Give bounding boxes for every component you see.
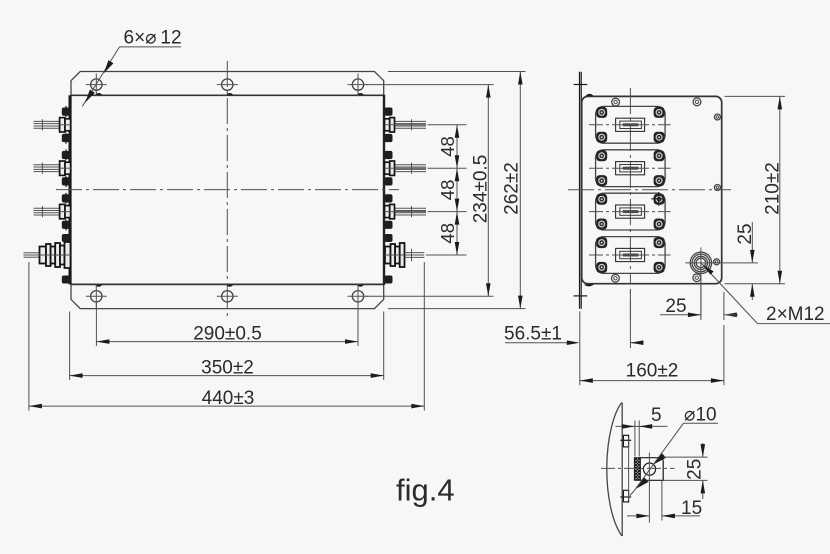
mounting hole bottom-left (6x dia12) [91,291,102,302]
extension lines for 350 [69,312,71,381]
dimension 56.5+-1 line [505,342,574,344]
dimension 48 (row 1 to 2) [456,125,458,168]
terminal cover 2: corner screws [596,150,607,161]
dimension 5: line and arrows [616,425,668,427]
detail view: stud block [640,458,663,481]
mounting hole bottom-middle (6x dia12) [222,291,233,302]
dimension 25 detail: line and arrows [702,443,704,457]
right terminal row 3: nut stack [385,206,390,218]
main view: body bottom edge [71,283,384,285]
terminal cover 2: outer plate [596,150,666,187]
main view: body top edge [71,94,384,96]
side view: mounting plate [579,72,581,309]
main view: vertical centerline [226,61,228,319]
dimension 210+-2 line [779,96,781,283]
svg-text:290±0.5: 290±0.5 [193,324,262,345]
right terminal row 3: stud [394,207,426,209]
left terminal row 2: screw below [62,177,70,185]
svg-text:56.5±1: 56.5±1 [504,324,562,345]
side view: box outline [582,96,722,283]
detail view: break line (wavy) [607,403,622,537]
detail view: stud hole circle dia10 [643,463,655,475]
svg-text:160±2: 160±2 [626,361,679,382]
extension line row 1 [428,124,467,126]
left terminal row 2: nut stack [60,161,65,175]
terminal cover 1: outer plate [596,106,666,143]
dimension 234+-0.5 line [487,85,489,297]
extension line plate bottom [579,311,581,385]
left terminal row 3: nut stack [60,204,65,218]
svg-text:48: 48 [437,180,458,201]
left terminal row 2: stud [34,164,60,166]
label 2xM12 leader [701,263,758,324]
right terminal row 3: screw below [384,221,392,229]
svg-text:440±3: 440±3 [202,388,255,409]
dimension 25 horizontal (centerline to gland) [629,290,631,320]
side view: plate hole tick bottom [574,295,588,297]
right terminal row 4: stud tip [405,252,425,254]
left terminal row 1: nut stack [60,118,65,132]
left terminal row 1: screw below [62,134,70,142]
dimension 48 (row 2 to 3) [456,168,458,211]
detail view: bottom tab [623,490,628,502]
dimension 15: line and arrows [627,515,649,517]
main view: horizontal centerline [56,189,399,191]
right terminal row 3: screw above [384,194,392,202]
left terminal row 2: screw above [62,151,70,159]
svg-text:⌀10: ⌀10 [684,405,717,426]
cable gland 2xM12 [690,252,711,273]
terminal cover 1: centerline [589,124,671,126]
left terminal row 3: stud [34,207,60,209]
mounting hole top-middle (6x dia12) [222,79,233,90]
main view: flange outline [71,72,384,309]
terminal cover 4: corner screws [596,237,607,248]
detail view: insulator line [628,437,630,501]
side view: edge mark top [586,94,594,96]
side view: edge mark bottom [584,285,594,287]
dimension 262+-2 line [519,72,521,309]
right terminal row 4 (line terminal): gland stack [385,247,391,264]
left terminal row 4: screw below [62,276,70,284]
left terminal row 4 (line terminal): stud tip [24,252,40,254]
extension line box top right [725,95,786,97]
mounting hole bottom-right (6x dia12) [352,291,363,302]
main view: body right edge (thick) [383,95,385,285]
label 6x dia12 leader line [82,47,119,107]
detail view: centerline [601,467,675,469]
svg-text:350±2: 350±2 [201,358,254,379]
right terminal row 1: stud [394,120,426,122]
svg-text:262±2: 262±2 [502,162,523,215]
left terminal row 4: gland stack [40,247,47,264]
right terminal row 4: screw above [384,234,392,242]
terminal cover 1: terminal block [616,118,645,131]
side view: vertical centerline [629,88,631,283]
extension line row 2 [428,167,467,169]
extension lines for 262 [388,71,526,73]
extension line row 3 [428,211,467,213]
svg-text:6×⌀ 12: 6×⌀ 12 [124,28,182,49]
dimension 290+-0.5 line [96,341,358,343]
left terminal row 3: screw below [62,221,70,229]
terminal cover 2: terminal block [616,162,645,175]
svg-text:25: 25 [665,296,686,317]
left terminal row 3: screw above [62,194,70,202]
dimension 440+-3 line [29,405,424,407]
svg-text:25: 25 [735,223,756,244]
extension line box bottom right [725,283,786,285]
svg-text:48: 48 [437,136,458,157]
dimension 5: extension lines [634,421,636,457]
terminal cover 2: centerline [589,167,671,169]
terminal cover 3: centerline [589,211,671,213]
terminal cover 4: terminal block [616,248,645,261]
svg-text:210±2: 210±2 [763,162,784,215]
side view: right edge circles [714,114,720,120]
svg-text:234±0.5: 234±0.5 [471,155,492,224]
svg-text:15: 15 [681,498,702,519]
dimension 48 (row 3 to 4) [456,212,458,255]
svg-text:25: 25 [685,459,706,480]
side view: horizontal centerline [568,189,731,191]
terminal cover 1: corner screws [596,107,607,118]
svg-text:2×M12: 2×M12 [766,304,825,325]
right terminal row 2: nut stack [385,162,390,174]
terminal cover 4: centerline [589,254,671,256]
dimension 350+-2 line [70,375,384,377]
side view: plate hole tick top [574,84,588,86]
terminal cover 3: terminal block [616,205,645,218]
svg-text:48: 48 [437,223,458,244]
extension line row 4 [428,254,467,256]
left terminal row 1: screw above [62,108,70,116]
detail view: plate edge line [621,403,623,537]
svg-text:fig.4: fig.4 [396,472,455,507]
mounting hole top-right (6x dia12) [352,79,363,90]
right terminal row 2: screw above [384,151,392,159]
extension lines for 290 [95,302,97,346]
left terminal row 1: stud [34,120,60,122]
right terminal row 1: nut stack [385,119,390,131]
right terminal row 2: screw below [384,177,392,185]
extension lines for 234 [366,84,494,86]
svg-text:5: 5 [651,405,662,426]
label dia10 leader [634,423,684,491]
terminal cover 3: corner screws [596,194,607,205]
dimension 25 detail: extension lines [664,456,708,458]
terminal cover 4: outer plate [596,237,666,274]
dimension 25 vertical (gland to bottom) [751,222,753,263]
right terminal row 1: screw below [384,134,392,142]
right terminal row 4: screw below [384,276,392,284]
right terminal row 1: screw above [384,108,392,116]
dimension 160+-2 line [580,380,724,382]
side view: face screw top-left [612,98,620,106]
dimension 15: extension lines [648,453,650,523]
extension lines for 440 [28,262,30,411]
extension line box right bottom [723,325,725,385]
left terminal row 4: screw above [62,234,70,242]
terminal cover 3: outer plate [596,193,666,230]
detail view: top tab [623,435,628,447]
right terminal row 2: stud [394,164,426,166]
cover 3 top-right screw crosshair [651,198,665,200]
mounting hole top-left (6x dia12) [91,79,102,90]
main view: body left edge (thick) [69,95,72,284]
